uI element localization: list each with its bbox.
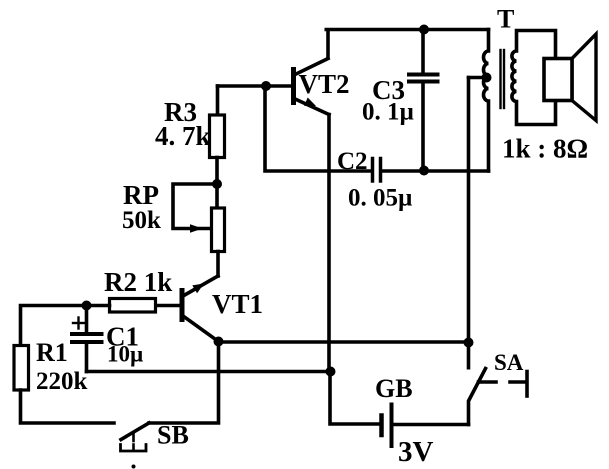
node SA rail junction: [464, 338, 474, 348]
wire R3 bottom to RP: [215, 158, 219, 209]
potentiometer RP wiper arrow: [190, 224, 203, 232]
resistor R1: [14, 346, 29, 391]
speaker: [544, 34, 596, 121]
wire C1 bottom lead: [85, 344, 89, 372]
node VT1 lower junction: [214, 337, 224, 347]
resistor R2: [110, 299, 156, 313]
svg-text:C2: C2: [337, 148, 368, 175]
wire C2 right lead: [382, 169, 488, 173]
svg-text:VT1: VT1: [212, 289, 263, 319]
wire R2 right lead: [156, 304, 181, 308]
svg-text:10µ: 10µ: [107, 342, 143, 367]
wire RP wiper loop: [173, 184, 217, 229]
capacitor C2: [373, 159, 381, 182]
svg-text:T: T: [497, 5, 514, 34]
wire C3 top lead: [421, 30, 425, 73]
svg-text:R2 1k: R2 1k: [104, 267, 172, 297]
wire RP bottom to VT1: [216, 252, 220, 277]
node transformer tap: [482, 73, 492, 83]
stray mark: [132, 465, 136, 469]
svg-text:3V: 3V: [398, 436, 434, 468]
node VT2 base junction: [261, 81, 271, 91]
transformer T primary: [484, 30, 489, 172]
potentiometer RP: [212, 208, 225, 252]
node C1 top junction: [82, 301, 92, 311]
wire R3 top riser: [216, 86, 220, 115]
svg-text:SA: SA: [494, 350, 524, 375]
resistor R3: [210, 115, 225, 158]
battery GB: [382, 405, 392, 447]
wire junction down to battery minus: [330, 372, 379, 425]
wire VT2 collector riser: [326, 31, 330, 58]
wire C1 to emitter rail: [87, 370, 331, 374]
svg-text:R1: R1: [36, 338, 68, 367]
wire VT2 base lead: [218, 84, 292, 88]
svg-text:VT2: VT2: [299, 69, 350, 99]
capacitor C1: [72, 318, 102, 343]
transistor VT2: [294, 59, 330, 115]
transformer T secondary: [512, 31, 556, 125]
node C3 bottom junction: [419, 166, 429, 176]
node R3/RP junction: [212, 179, 222, 189]
wire VT1 junction to SA line: [219, 340, 469, 344]
svg-text:GB: GB: [375, 374, 413, 403]
wire VT1 junction down to SB: [149, 342, 219, 424]
wire C3 bottom lead: [421, 84, 425, 171]
wire top rail: [326, 28, 488, 32]
wire transformer tap lead: [469, 76, 487, 80]
svg-text:0. 1µ: 0. 1µ: [362, 99, 414, 126]
wire R2 left lead: [21, 306, 110, 346]
wire C2 left lead from VT2 base: [265, 86, 371, 171]
wire R1 bottom to SB contact: [21, 390, 115, 423]
capacitor C3: [409, 75, 438, 82]
svg-text:SB: SB: [157, 421, 189, 450]
transformer T core: [501, 50, 505, 108]
wire C1 top lead: [85, 306, 89, 333]
wire VT2 emitter drop: [327, 115, 331, 372]
node emitter rail junction: [326, 367, 336, 377]
svg-text:1k : 8Ω: 1k : 8Ω: [502, 134, 588, 164]
transistor VT1: [182, 276, 219, 342]
svg-text:220k: 220k: [36, 368, 88, 395]
switch SA: [469, 369, 528, 425]
svg-text:RP: RP: [123, 180, 159, 210]
svg-text:0. 05µ: 0. 05µ: [348, 185, 412, 212]
wire battery plus to SA: [394, 423, 469, 427]
svg-text:50k: 50k: [122, 207, 161, 234]
wire SA top lead: [467, 78, 471, 368]
node C3 top junction: [419, 25, 429, 35]
svg-text:4. 7k: 4. 7k: [155, 121, 211, 151]
switch SB: [121, 423, 150, 451]
